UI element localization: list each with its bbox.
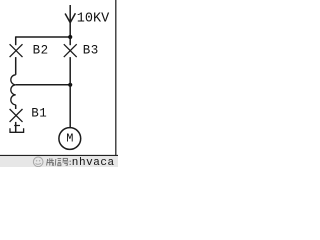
watermark text xin glyph: [55, 159, 61, 166]
svg-text:B3: B3: [83, 43, 99, 57]
watermark text wei glyph: [47, 158, 54, 166]
motor M1 circle: [59, 128, 81, 150]
wire reactor tap: [16, 84, 70, 86]
wire bus to B3: [69, 37, 71, 45]
wire left drop: [15, 36, 17, 45]
watermark icon: [33, 157, 43, 167]
watermark text colon and id: [70, 161, 71, 165]
drawout truck cup: [10, 128, 24, 132]
breaker B1: [10, 109, 23, 122]
incoming supply arrow: [65, 5, 75, 37]
watermark separator line: [0, 155, 118, 157]
svg-text:M: M: [66, 131, 73, 145]
breaker B3: [64, 44, 77, 57]
svg-text:10KV: 10KV: [77, 12, 110, 27]
wire B3 to motor: [69, 57, 71, 127]
watermark bar: [0, 156, 118, 167]
breaker B2: [10, 44, 23, 57]
wire reactor to B1: [15, 105, 17, 109]
node junction top: [68, 35, 72, 39]
wire B1 to drawout contact: [15, 122, 17, 132]
svg-text:B1: B1: [31, 106, 47, 120]
svg-text:nhvaca: nhvaca: [72, 157, 115, 167]
reactor coil: [11, 75, 16, 105]
svg-text:B2: B2: [33, 43, 49, 57]
node junction tap: [68, 83, 72, 87]
watermark text hao glyph: [62, 158, 68, 165]
frame border right edge: [115, 0, 117, 155]
wire B2 to reactor: [15, 57, 17, 75]
wire top busbar: [16, 36, 70, 38]
drawout contact tick: [14, 125, 20, 127]
